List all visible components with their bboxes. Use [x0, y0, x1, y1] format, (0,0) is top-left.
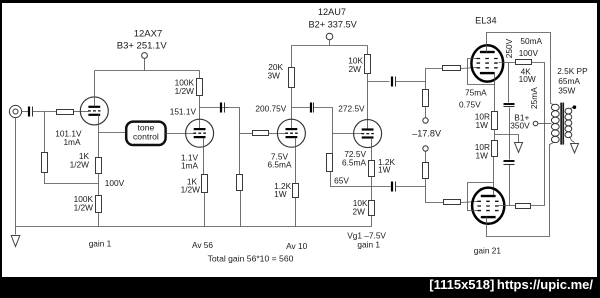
svg-text:65V: 65V: [334, 176, 349, 186]
terminal bias lower: [423, 146, 428, 151]
svg-text:gain 1: gain 1: [357, 240, 380, 250]
resistor R13 1.2K cathode (V4): [369, 161, 375, 177]
wire rail to R11: [367, 46, 369, 55]
wire C1 to node and R1: [33, 111, 57, 113]
resistor R14 10K 2W (V4 tail): [369, 201, 375, 216]
resistor R11 10K anode (V4): [365, 55, 371, 74]
svg-text:1/2W: 1/2W: [74, 203, 94, 213]
label 35W: [558, 86, 575, 96]
label 65mA: [558, 76, 580, 86]
label 12AU7: [318, 7, 346, 17]
label 25mA: [529, 87, 539, 109]
label 72.5V 6.5mA: [342, 149, 366, 168]
node sense ground: [0, 0, 1, 1]
wire C6 to ground node: [509, 108, 511, 135]
triode V2 (12AX7 b): [186, 119, 214, 147]
wire R4 to ground rail: [98, 213, 100, 227]
wire R5 to anode node 151.1V: [199, 96, 201, 129]
label Vg1 -7.5V: [347, 230, 386, 240]
capacitor C2 (interstage): [221, 103, 225, 113]
resistor R6 1K cathode (V2): [202, 175, 208, 193]
input jack J1: [9, 105, 21, 117]
wire ground node horizontal: [495, 135, 519, 143]
svg-text:100V: 100V: [105, 178, 125, 188]
label 2.5K PP: [557, 66, 588, 76]
resistor R22 4K screen (lower): [516, 204, 531, 209]
resistor R20 10R 1W (upper): [492, 112, 498, 130]
label -17.8V: [412, 128, 442, 138]
pentode U2 (EL34 lower, mirrored): [472, 188, 504, 224]
node 100V: [0, 0, 1, 1]
svg-text:12AX7: 12AX7: [134, 28, 163, 39]
svg-text:Av 10: Av 10: [286, 241, 307, 251]
node 65V: [0, 0, 1, 1]
wire R16 to bias terminal: [425, 107, 427, 119]
transformer T1 secondary winding: [565, 108, 572, 137]
label 4K 10W: [519, 66, 536, 84]
svg-text:75mA: 75mA: [465, 88, 487, 98]
wire R2 bottom to 100V node: [45, 173, 99, 184]
wire jack sleeve to ground: [15, 118, 17, 235]
triode V3 (12AU7 a): [277, 119, 305, 147]
label 200.75V: [255, 104, 286, 114]
wire C3 to V4 grid node: [314, 108, 333, 154]
wire U1 anode up to OPT: [487, 33, 551, 104]
node V1 cathode 101.1V: [0, 0, 1, 1]
wire V2 cathode down: [203, 138, 205, 175]
label gain 1 (driver): [357, 240, 380, 250]
label 100K 1/2W (V2): [175, 78, 195, 96]
label 1.2K 1W (V3): [274, 181, 292, 199]
capacitor C5 (to lower EL34 grid): [392, 182, 396, 192]
svg-text:1W: 1W: [378, 165, 391, 175]
label 100V: [519, 48, 539, 58]
wire R8 to ground: [240, 191, 242, 227]
badge bar [1115x518] https://upic.me/: [0, 277, 600, 298]
wire 65V node horizontal: [333, 186, 391, 188]
svg-text:3W: 3W: [268, 71, 281, 81]
label B3+ 251.1V: [117, 40, 168, 51]
resistor R3 1K cathode: [96, 158, 102, 174]
label gain 21: [474, 245, 502, 255]
wire B3+ rail: [95, 70, 200, 72]
wire U1 screen to R19: [499, 62, 516, 64]
label 0.75V: [459, 100, 481, 110]
label 10R 1W (upper): [475, 111, 490, 129]
svg-text:0.75V: 0.75V: [459, 100, 481, 110]
label EL34: [475, 15, 496, 25]
svg-text:35W: 35W: [558, 86, 575, 96]
svg-text:50mA: 50mA: [520, 36, 542, 46]
wire R3 to 100V node: [98, 174, 100, 196]
svg-text:Av 56: Av 56: [192, 240, 213, 250]
resistor R10 1.2K cathode (V3): [293, 184, 299, 198]
svg-text:2W: 2W: [349, 64, 362, 74]
label Av 56: [192, 240, 213, 250]
svg-text:6.5mA: 6.5mA: [268, 160, 292, 170]
label 1.2K 1W (V4): [378, 157, 396, 175]
output terminal dot: [573, 105, 577, 109]
wire B1+ to OPT center tap: [538, 123, 552, 125]
svg-text:1W: 1W: [476, 120, 489, 130]
node input grid: [0, 0, 1, 1]
wire screen bypass rise: [509, 165, 511, 206]
wire junction up to grid stopper: [426, 69, 443, 82]
resistor R2 (grid leak to 100V node): [42, 153, 48, 173]
svg-text:100V: 100V: [519, 48, 539, 58]
label 100V: [105, 178, 125, 188]
wire C7 to ground node: [509, 135, 511, 160]
ground symbol (sense): [515, 143, 523, 153]
svg-text:250V: 250V: [504, 38, 514, 58]
wire R22 to B1+ node: [531, 124, 545, 206]
label 75mA: [465, 88, 487, 98]
wire rail to R9: [291, 46, 293, 68]
wire jack to C1: [22, 111, 29, 113]
wire anode node to C4: [368, 81, 390, 83]
wire R19 to B1+ node: [532, 63, 545, 124]
wire C5 to lower grid junction: [396, 186, 426, 188]
label 7.5V 6.5mA: [268, 152, 292, 170]
wire V1 anode to B3+ rail: [94, 71, 96, 107]
wire U1 cathode down: [494, 74, 496, 112]
node 272.5V: [0, 0, 1, 1]
wire R18 to lower EL34 grid: [461, 202, 478, 203]
label 1K 1/2W (V1 cathode): [70, 151, 90, 170]
wire R12 to 65V node: [331, 172, 333, 187]
tone control block: [126, 122, 165, 145]
pentode U1 (EL34 upper): [471, 45, 503, 81]
resistor R17 grid leak (lower): [423, 163, 429, 179]
svg-text:B2+ 337.5V: B2+ 337.5V: [308, 19, 357, 29]
node 151.1V: [0, 0, 1, 1]
node V3 grid: [0, 0, 1, 1]
wire V1 cathode down: [98, 115, 100, 158]
wire secondary top to output dot: [570, 108, 574, 109]
resistor R9 20K anode (V3): [289, 68, 295, 88]
capacitor C6 screen bypass (upper): [504, 104, 515, 107]
svg-text:gain 21: gain 21: [474, 245, 502, 255]
node V4 grid: [0, 0, 1, 1]
resistor R19 4K 10W screen: [516, 60, 532, 65]
wire grid-leak drop: [44, 112, 46, 153]
label 20K 3W: [268, 62, 284, 81]
svg-text:25mA: 25mA: [529, 87, 539, 109]
wire B2+ rail: [292, 45, 368, 47]
wire R1 to V1 grid: [74, 111, 89, 113]
ground rail: [16, 226, 372, 228]
wire U2 screen to R22: [499, 205, 516, 207]
resistor R5 100K anode (V2): [197, 79, 203, 96]
label 1.1V 1mA: [181, 152, 199, 170]
wire R6 to ground: [204, 193, 206, 227]
label 151.1V: [170, 106, 197, 116]
transformer T1 primary winding: [550, 104, 560, 147]
capacitor C7 screen bypass (lower): [504, 161, 515, 165]
svg-text:control: control: [133, 132, 159, 142]
label Av 10: [286, 241, 307, 251]
wire C4 to upper grid junction: [396, 81, 426, 83]
label 50mA: [520, 36, 542, 46]
terminal B2+: [326, 33, 333, 45]
transformer T1 core: [560, 103, 564, 145]
label 272.5V: [338, 104, 365, 114]
svg-text:350V: 350V: [510, 120, 530, 130]
terminal bias upper: [423, 118, 428, 123]
svg-text:6.5mA: 6.5mA: [342, 158, 366, 168]
svg-text:1W: 1W: [274, 189, 287, 199]
svg-text:2W: 2W: [353, 207, 366, 217]
label B2+ 337.5V: [308, 19, 357, 29]
svg-text:200.75V: 200.75V: [255, 104, 286, 114]
wire U2 suppressor to cathode: [468, 183, 494, 211]
wire R21 to lower cathode: [494, 157, 495, 197]
triode V4 (12AU7 b): [354, 120, 382, 148]
resistor R21 10R 1W (lower): [492, 141, 498, 157]
resistor R4 100K to ground: [96, 196, 102, 213]
label 1K 1/2W (V2): [181, 176, 201, 194]
wire R17 to lower grid junction: [425, 179, 427, 187]
label gain 1: [89, 239, 112, 249]
svg-text:12AU7: 12AU7: [318, 7, 346, 17]
svg-text:1/2W: 1/2W: [175, 86, 195, 96]
wire screen bypass drop: [508, 63, 510, 103]
wire R15 to upper EL34 grid: [461, 68, 477, 69]
wire anode node to C3: [292, 107, 311, 109]
wire grid node to R7: [240, 133, 253, 135]
resistor R1 (series grid resistor): [57, 110, 74, 115]
svg-text:151.1V: 151.1V: [170, 106, 197, 116]
label 10K 2W (V4 anode): [348, 56, 363, 75]
svg-text:272.5V: 272.5V: [338, 104, 365, 114]
wire U2 anode to OPT bottom: [487, 147, 550, 237]
wire cathode to tone control: [99, 132, 126, 134]
wire R20 to ground node: [494, 130, 496, 141]
label 12AX7: [134, 28, 163, 39]
resistor R12 (grid to 65V node): [327, 154, 333, 172]
wire tone control to V2 grid: [166, 133, 194, 135]
wire R10 to ground: [295, 198, 297, 227]
ground symbol (secondary): [571, 144, 579, 154]
svg-text:Total gain 56*10 = 560: Total gain 56*10 = 560: [208, 253, 294, 263]
wire junction down to grid stopper: [426, 187, 444, 203]
wire V3 cathode down: [295, 138, 297, 184]
wire U1 suppressor to cathode: [468, 59, 495, 85]
label 65V: [334, 176, 349, 186]
triode V1 (12AX7 a): [80, 97, 108, 125]
ground symbol (input): [11, 236, 20, 247]
svg-text:–17.8V: –17.8V: [412, 128, 442, 138]
node upper grid junction: [0, 0, 1, 1]
resistor R7 (grid stopper V3): [253, 131, 269, 136]
svg-text:EL34: EL34: [475, 15, 496, 25]
svg-text:1/2W: 1/2W: [181, 185, 201, 195]
svg-text:1/2W: 1/2W: [70, 159, 90, 169]
svg-text:1mA: 1mA: [181, 160, 199, 170]
svg-text:10W: 10W: [519, 74, 536, 84]
terminal B1+: [533, 121, 538, 126]
wire grid node to V4: [333, 133, 362, 135]
wire bias terminal to R17: [425, 152, 427, 163]
wire secondary bottom to ground: [570, 137, 575, 143]
wire V4 cathode down: [371, 138, 373, 161]
wire C2 to V3 grid network: [225, 108, 240, 175]
resistor R18 grid stopper (lower EL34): [444, 200, 461, 205]
terminal B3+: [142, 53, 148, 71]
label 250V: [504, 38, 514, 58]
svg-text:65mA: 65mA: [558, 76, 580, 86]
resistor R15 grid stopper (upper EL34): [443, 66, 461, 71]
wire R9 to anode node 200.75V: [291, 88, 293, 129]
wire R13 to 65V node: [371, 177, 373, 201]
wire R14 to ground rail: [371, 216, 373, 227]
label B1+ 350V: [510, 113, 530, 131]
node 200.75V: [0, 0, 1, 1]
wire anode node to C2: [200, 107, 229, 109]
capacitor C1 (input coupling): [29, 107, 33, 117]
svg-text:1mA: 1mA: [63, 137, 81, 147]
svg-text:gain 1: gain 1: [89, 239, 112, 249]
capacitor C4 (to upper EL34 grid): [392, 77, 396, 87]
svg-text:1W: 1W: [476, 150, 489, 160]
wire R11 to anode node 272.5V: [367, 74, 369, 130]
label 101.1V 1mA: [55, 129, 82, 148]
node 0.75V: [0, 0, 1, 1]
label 10R 1W (lower): [475, 142, 490, 161]
wire R7 to V3: [269, 133, 286, 135]
label Total gain: [208, 253, 294, 263]
label 10K 2W (tail): [353, 198, 368, 216]
resistor R8 (grid leak V3): [237, 175, 243, 191]
svg-text:B3+ 251.1V: B3+ 251.1V: [117, 40, 168, 51]
resistor R16 grid leak (upper): [423, 82, 429, 107]
wire rail to R5: [199, 71, 201, 79]
label 100K 1/2W (V1): [74, 194, 94, 213]
capacitor C3 (to V4 grid): [311, 103, 314, 113]
svg-text:2.5K PP: 2.5K PP: [557, 66, 588, 76]
